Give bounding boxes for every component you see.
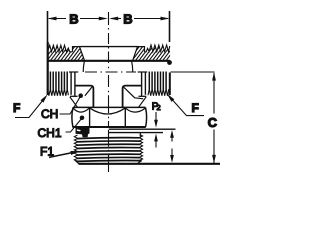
right port lower end face [169,73,171,96]
svg-text:B: B [123,12,132,27]
hex nut CH1 top edge [73,106,146,108]
left port thread chamfer [73,47,85,61]
dimension B right extension line [169,11,171,42]
svg-text:B: B [69,12,78,27]
dimension line B (right span) [111,18,168,20]
left port end face [47,42,49,95]
svg-text:CH1: CH1 [38,126,62,140]
leader CH1 dot [80,116,85,121]
dimension C line upper [213,73,215,114]
right shoulder line [123,86,142,108]
hex nut CH1 chamfer arcs [73,108,145,114]
hex nut CH1 facet lines [89,107,91,127]
P2 upper arrow [155,112,157,122]
washer bottom line [109,132,163,134]
arrowhead B left inner [99,17,108,21]
dimension line B (left span) [49,18,106,20]
arrowhead B left outer [48,17,57,21]
thread length lower arrow [171,149,173,157]
left collar chamfer diagonal [85,87,93,96]
leader F right arrowhead [167,94,174,102]
stud bottom chamfer right [138,160,142,164]
left port section hatching [43,45,93,62]
svg-text:F: F [13,101,20,115]
leader F right [169,96,205,116]
hex nut CH1 bottom edge [73,126,146,128]
leader F left [15,97,46,118]
hex nut CH1 left side arc [72,107,73,127]
seal washer sectioned (filled) [76,128,90,137]
left port lower collar top edge [69,71,78,73]
left thread runout curve [83,61,84,72]
dimension B left extension line [47,11,49,42]
bore line (top section inner edge) [48,60,170,62]
leader F1 arrowhead [70,151,79,155]
seal washer highlight [77,129,81,131]
leader CH [60,96,81,114]
left port thread runout verticals [70,72,72,95]
stud bottom face and extension line [79,163,221,165]
right port lower thread point zigzag [148,89,169,96]
horizontal axis dash-dot center [85,71,136,73]
P2 lower arrow [155,140,157,148]
stud thread right edge zigzag [139,134,142,161]
washer top line [109,128,176,130]
centerline vertical axis [108,12,110,172]
left hex transition chamfer [70,97,78,108]
stud thread left edge zigzag [74,135,78,161]
svg-text:F: F [192,101,199,115]
stud bottom chamfer left [75,160,79,164]
arrowhead B right outer [161,17,170,21]
stud thread lines [77,138,140,162]
svg-text:2: 2 [157,103,161,112]
right port lower end edge [139,95,147,97]
right port lower collar top edge [138,71,148,73]
left port lower thread point zigzag [48,89,69,96]
right hex transition chamfer [139,97,147,108]
left port lower end edge [70,95,78,97]
leader F left arrowhead [41,94,48,102]
leader CH dot [78,93,83,98]
right collar chamfer diagonal [124,87,144,99]
right thread runout curve [132,61,133,72]
leader dot on right extension [167,60,172,65]
hex nut CH1 right side arc [146,107,147,127]
thread length upper arrow [171,136,173,142]
leader F1 arrow [49,153,71,158]
dimension C arrow down [212,155,216,163]
left shoulder line [75,86,94,108]
left port lower thread stripes [50,72,67,90]
dimension C line lower [213,130,215,164]
svg-text:CH: CH [41,107,58,121]
svg-text:C: C [208,115,218,130]
body top line [80,46,138,48]
right port thread runout verticals [141,72,143,97]
stud neck right edge [139,133,141,137]
extension line from right port to dimension C [171,71,215,73]
right port lower thread stripes [149,72,166,90]
leader CH1 [66,118,83,132]
arrowhead B right inner [109,17,118,21]
right port section hatching [128,45,178,62]
dimension C arrow up [212,72,216,80]
